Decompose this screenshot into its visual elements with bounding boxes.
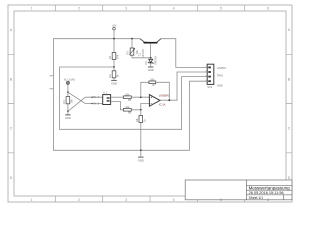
svg-text:3: 3 (125, 198, 127, 202)
svg-text:IN..1: IN..1 (93, 95, 99, 99)
pin arrow IN.1 (90, 95, 99, 99)
wire U1 out2 down to R6 (111, 102, 124, 110)
resistor R1 (108, 39, 120, 67)
svg-text:6: 6 (267, 198, 269, 202)
svg-text:TRIG: TRIG (217, 73, 223, 77)
resistor R8 (135, 116, 147, 123)
svg-text:1: 1 (31, 198, 33, 202)
svg-text:1: 1 (206, 66, 207, 68)
net label tick on left rail (upper) (50, 75, 54, 77)
junction trimmer top (131, 38, 133, 40)
frame row letters right (288, 28, 291, 180)
svg-text:10k: 10k (150, 77, 155, 81)
svg-text:B_Co(N): B_Co(N) (64, 78, 75, 82)
frame outer border (8, 5, 292, 202)
svg-text:R3: R3 (126, 51, 130, 55)
resistor R5 (123, 92, 131, 102)
resistor R6 (123, 105, 131, 115)
svg-text:6: 6 (267, 7, 269, 11)
svg-text:3: 3 (206, 75, 207, 77)
svg-text:GND: GND (148, 68, 154, 72)
svg-text:2: 2 (78, 7, 80, 11)
svg-text:10k: 10k (125, 105, 130, 109)
svg-text:1: 1 (31, 7, 33, 11)
connector SV1 (206, 64, 214, 89)
svg-text:10k: 10k (116, 54, 120, 59)
svg-text:R5: R5 (128, 98, 132, 102)
junction output node (168, 99, 170, 101)
svg-text:2: 2 (78, 198, 80, 202)
zener diode D1 (144, 55, 157, 66)
frame inner border (14, 11, 286, 196)
svg-text:IN..2: IN..2 (93, 102, 99, 106)
svg-text:D1: D1 (144, 61, 148, 65)
svg-text:R7: R7 (152, 83, 156, 87)
svg-text:BC237: BC237 (141, 48, 145, 56)
wire R8 down to ground rail (140, 110, 142, 151)
trimmer R3 (126, 39, 139, 58)
svg-text:+5V: +5V (111, 24, 116, 28)
junction + input node (140, 96, 142, 98)
wire divider node loop to SV1 pin 3 (60, 67, 208, 129)
resistor R7 (149, 77, 156, 87)
frame row letters left (10, 28, 13, 180)
svg-text:GND: GND (111, 82, 117, 86)
svg-text:4: 4 (173, 198, 175, 202)
svg-text:2: 2 (206, 71, 207, 73)
transistor T1 BC237 (138, 39, 161, 58)
+5V power symbol (111, 24, 116, 39)
frame column numbers bottom (31, 198, 270, 202)
ground below R2 (111, 80, 117, 85)
junction divider node (113, 66, 115, 68)
wire crossing to U1 IN1 (68, 97, 103, 111)
junction R4 bottom (67, 110, 69, 112)
svg-text:SV1: SV1 (207, 85, 213, 89)
frame row ticks right (286, 54, 292, 153)
svg-text:GND: GND (217, 83, 223, 87)
svg-text:C: C (288, 127, 291, 131)
resistor R4 (62, 92, 74, 111)
svg-text:R6: R6 (128, 111, 132, 115)
svg-text:4: 4 (173, 7, 175, 11)
svg-text:10k: 10k (70, 99, 74, 104)
ground below R4 (65, 111, 71, 120)
wire U1 out1 to R5 (111, 96, 124, 98)
wire op-amp output to SV1 pin 2 (160, 72, 207, 100)
ground below zener (148, 67, 154, 72)
svg-text:R4: R4 (62, 100, 66, 104)
svg-text:4: 4 (206, 80, 207, 82)
svg-text:Sheet 1/1: Sheet 1/1 (249, 196, 264, 200)
wire trimmer to zener node (132, 57, 151, 59)
title block (185, 180, 292, 200)
junction ground rail (140, 149, 142, 151)
wire crossing to U1 IN2 (68, 92, 103, 103)
svg-text:ZPD3.9: ZPD3.9 (153, 55, 157, 64)
svg-text:Messwertanpassung: Messwertanpassung (249, 185, 291, 190)
svg-text:26.05.2016 15:11:56: 26.05.2016 15:11:56 (249, 191, 284, 195)
input pad B_Co(N) (64, 78, 75, 93)
svg-text:R1: R1 (108, 55, 112, 59)
wire R5 to op-amp + input (131, 96, 149, 98)
svg-text:IC.1A: IC.1A (159, 103, 166, 107)
junction pad / R4 top (67, 91, 69, 93)
svg-text:5: 5 (220, 198, 222, 202)
net label tick on left rail (lower) (50, 88, 54, 90)
svg-text:R2: R2 (108, 74, 112, 78)
svg-text:D: D (288, 176, 291, 180)
ground symbol bottom rail (138, 150, 144, 162)
frame row ticks left (8, 54, 14, 153)
svg-text:GND: GND (138, 158, 144, 162)
junction base / zener node (150, 57, 152, 59)
pin arrow IN.2 (90, 102, 99, 106)
wire R6 to - input (131, 104, 149, 110)
resistor R2 (108, 67, 120, 80)
svg-text:3: 3 (125, 7, 127, 11)
IC U1 (103, 91, 111, 105)
svg-text:GND: GND (65, 116, 71, 120)
wire feedback up and across (141, 82, 170, 100)
svg-text:5: 5 (220, 7, 222, 11)
svg-text:D: D (10, 176, 13, 180)
junction +5V rail (113, 38, 115, 40)
svg-text:10k: 10k (125, 92, 130, 96)
junction - input node (140, 109, 142, 111)
wire GND loop: left rail, bottom rail to SV1 pin 4 (54, 39, 208, 151)
frame column ticks bottom (55, 196, 244, 202)
svg-text:C: C (10, 127, 13, 131)
svg-text:R8: R8 (135, 118, 139, 122)
svg-text:+PWR1: +PWR1 (217, 66, 227, 70)
frame column ticks top (55, 5, 244, 11)
svg-text:LM358N: LM358N (159, 94, 169, 98)
op-amp IC1A (149, 94, 168, 107)
frame column numbers top (31, 7, 270, 11)
wire transistor collector to SV1 pin 1 (161, 39, 207, 68)
